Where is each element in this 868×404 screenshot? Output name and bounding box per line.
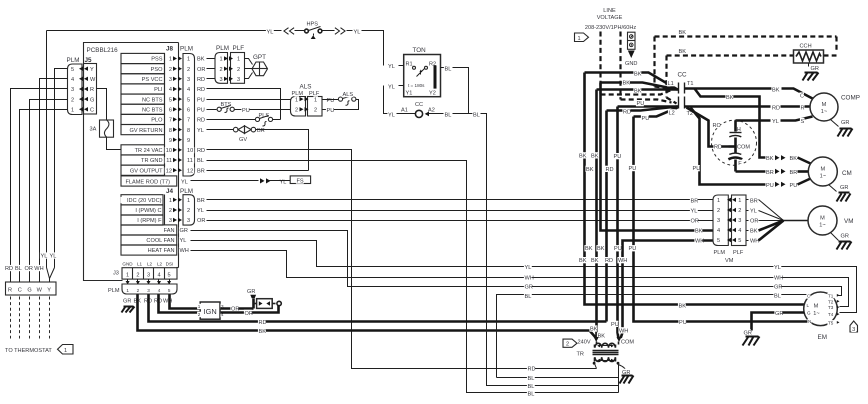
3-pin connector pin 1 xyxy=(219,56,224,62)
svg-text:4: 4 xyxy=(157,272,160,278)
J4 row 1 box IDC (20 VDC) xyxy=(121,195,163,205)
svg-text:VM: VM xyxy=(725,258,734,264)
svg-text:T5: T5 xyxy=(828,320,834,325)
transformer primary lead arrows xyxy=(594,337,599,342)
svg-text:WH: WH xyxy=(163,299,172,305)
svg-text:RC: RC xyxy=(713,123,721,129)
wire GR ground to EM G xyxy=(752,313,805,331)
wire J8-8 YL to GV xyxy=(207,129,234,131)
svg-text:WH: WH xyxy=(618,258,627,264)
svg-text:TR: TR xyxy=(577,352,584,358)
svg-text:BL: BL xyxy=(473,112,480,118)
wire BK L1 axis xyxy=(597,88,679,91)
svg-text:WH: WH xyxy=(774,276,783,282)
svg-text:OR: OR xyxy=(197,67,205,73)
svg-text:8: 8 xyxy=(187,128,190,134)
svg-text:WH: WH xyxy=(695,239,704,245)
svg-text:PLF: PLF xyxy=(233,45,245,52)
svg-text:CC: CC xyxy=(678,72,688,79)
EM tap T1 xyxy=(827,293,834,299)
svg-text:PU: PU xyxy=(327,98,335,104)
svg-text:BR: BR xyxy=(790,170,798,176)
VM wire BR to motor xyxy=(749,197,757,203)
J3 wire colors xyxy=(122,297,130,303)
svg-text:GR: GR xyxy=(123,299,131,305)
svg-text:R: R xyxy=(8,287,12,293)
wire J5-R to thermostat R (RD) xyxy=(11,89,68,283)
J3 pin 5 arrow xyxy=(169,280,171,285)
wire BL to EM C xyxy=(497,295,811,378)
svg-text:BL: BL xyxy=(528,376,535,382)
primary winding arrow xyxy=(600,345,612,347)
svg-text:F: F xyxy=(738,161,742,167)
wire J4-3 OR to VM pin3 xyxy=(207,220,713,222)
J8 pin column separator xyxy=(164,54,166,176)
svg-text:BK: BK xyxy=(623,81,631,87)
svg-text:C: C xyxy=(800,94,804,100)
J5 pin 3 (R) xyxy=(70,86,75,92)
wire PU L2 axis xyxy=(618,105,679,108)
svg-text:YL: YL xyxy=(267,30,274,36)
svg-text:1: 1 xyxy=(71,108,74,114)
J8 row 6 label box NC BTS xyxy=(121,104,165,114)
svg-text:VM: VM xyxy=(844,218,853,225)
svg-text:PSO: PSO xyxy=(151,67,163,73)
svg-text:GR: GR xyxy=(841,120,849,126)
svg-text:1: 1 xyxy=(237,57,240,63)
svg-text:10: 10 xyxy=(166,148,172,154)
svg-text:YL: YL xyxy=(388,113,395,119)
J8 pin 4 arrows xyxy=(168,86,173,92)
svg-text:L2: L2 xyxy=(147,262,153,267)
J4 row 2 box I (PWM) C xyxy=(121,205,163,215)
svg-text:11: 11 xyxy=(187,158,193,164)
J8 wire color RD pin 4 xyxy=(196,86,204,92)
VM connector pin 3 xyxy=(716,217,721,223)
svg-text:WH: WH xyxy=(619,328,628,334)
J4 pin column separator xyxy=(164,195,166,226)
transformer primary coil xyxy=(596,342,598,345)
svg-text:BR: BR xyxy=(750,198,758,204)
svg-text:5: 5 xyxy=(187,97,190,103)
svg-text:RD: RD xyxy=(197,148,205,154)
svg-text:GR: GR xyxy=(525,285,533,291)
ALS PLM housing xyxy=(291,97,306,117)
J8 wire color RD pin 10 xyxy=(196,147,204,153)
svg-text:R1: R1 xyxy=(406,61,413,67)
wire J4-2 YL to VM pin2 xyxy=(207,210,713,212)
VM ground GR xyxy=(831,233,839,241)
svg-text:PU: PU xyxy=(679,320,687,326)
svg-text:t = 180s: t = 180s xyxy=(408,83,425,88)
wire COOL FAN YL to EM T4 xyxy=(191,241,857,313)
svg-text:3: 3 xyxy=(147,288,150,293)
svg-text:PU: PU xyxy=(693,166,701,172)
svg-text:RD: RD xyxy=(197,77,205,83)
svg-text:OR: OR xyxy=(691,218,699,224)
svg-text:COOL FAN: COOL FAN xyxy=(146,238,174,244)
svg-text:2: 2 xyxy=(187,67,190,73)
svg-text:PLM: PLM xyxy=(108,288,120,294)
svg-text:2: 2 xyxy=(169,208,172,214)
wire J3-3 RD to L2 feed xyxy=(149,295,607,322)
J4 row FAN box xyxy=(121,225,177,235)
wire J8-3 to PLM (RD) xyxy=(207,78,215,80)
svg-text:BK: BK xyxy=(634,88,642,94)
svg-text:BL: BL xyxy=(445,112,452,118)
svg-text:2: 2 xyxy=(198,312,201,317)
svg-text:6: 6 xyxy=(169,108,172,114)
svg-text:208-230V/1PH/60Hz: 208-230V/1PH/60Hz xyxy=(585,25,637,31)
svg-text:CC: CC xyxy=(415,102,423,108)
ALS loop wire PU xyxy=(323,100,359,110)
svg-text:BK: BK xyxy=(591,258,599,264)
svg-text:5: 5 xyxy=(71,67,74,73)
TON internals xyxy=(405,60,413,66)
svg-text:G: G xyxy=(90,97,94,103)
ignition control IGN xyxy=(200,302,220,319)
svg-text:BK: BK xyxy=(695,229,703,235)
wire IGN OR to spark electrode xyxy=(221,307,254,310)
crankcase heater CCH xyxy=(799,42,810,48)
HEAT FAN WH label xyxy=(179,247,187,253)
svg-text:BR: BR xyxy=(197,168,205,174)
wire BL CC to transformer xyxy=(472,111,480,117)
BL label row3 xyxy=(527,383,535,389)
svg-text:BL: BL xyxy=(774,294,781,300)
connector J5 PLM housing xyxy=(68,64,83,115)
J3 pin 3 arrow xyxy=(148,280,150,285)
svg-text:8: 8 xyxy=(169,128,172,134)
wire J5-W to thermostat W (WH) xyxy=(40,79,68,283)
EM tap T2 xyxy=(827,299,834,305)
svg-text:YL: YL xyxy=(525,265,532,271)
J8 pin 3 arrows xyxy=(168,76,173,82)
J3 pin 2 arrow xyxy=(137,280,139,285)
wire BL from EM C to secondary xyxy=(497,377,619,379)
FLAME ROD (T7) box xyxy=(121,176,177,186)
J8 row 4 label box PLI xyxy=(121,84,165,94)
wire BK dashed CCH top xyxy=(655,35,837,37)
J8 pin 11 arrows xyxy=(165,157,173,163)
EM tap T3 xyxy=(827,305,834,311)
svg-text:3: 3 xyxy=(220,77,223,83)
svg-text:J8: J8 xyxy=(166,46,174,53)
wire BK L1 feed 2 xyxy=(601,83,678,90)
svg-text:TR 24 VAC: TR 24 VAC xyxy=(135,148,163,154)
J8 row 2 label box PSO xyxy=(121,64,165,74)
contact L1-T1 xyxy=(678,83,680,94)
svg-text:1: 1 xyxy=(198,304,201,309)
svg-text:2: 2 xyxy=(220,67,223,73)
svg-text:PLM: PLM xyxy=(67,57,80,64)
svg-text:5: 5 xyxy=(717,238,720,244)
RC COM terminal xyxy=(736,143,747,149)
wire J8-5 PU to ALS PLM pin1 xyxy=(207,99,291,101)
svg-text:1~: 1~ xyxy=(821,109,828,115)
svg-text:5: 5 xyxy=(169,97,172,103)
J3 pin 2 xyxy=(136,271,141,277)
svg-text:BK: BK xyxy=(750,229,758,235)
3-pin PLF housing xyxy=(231,53,245,84)
J8 row 12 label box GV OUTPUT xyxy=(121,165,165,175)
wire labels RD BL OR WH xyxy=(4,265,12,271)
svg-text:FS: FS xyxy=(297,179,304,185)
svg-text:240V: 240V xyxy=(578,339,591,345)
svg-text:TR GND: TR GND xyxy=(141,158,162,164)
J3 PLM housing xyxy=(122,284,177,294)
svg-text:G: G xyxy=(807,311,811,316)
dashed field wires to thermostat xyxy=(10,297,12,339)
svg-text:BK: BK xyxy=(679,303,687,309)
dashed drop to L1 xyxy=(653,37,655,87)
high pressure switch HPS xyxy=(306,20,317,26)
svg-text:ALS: ALS xyxy=(300,84,312,91)
svg-text:PU: PU xyxy=(197,97,205,103)
svg-text:3: 3 xyxy=(71,87,74,93)
J4 row HEAT FAN box xyxy=(121,245,177,255)
svg-text:1: 1 xyxy=(220,57,223,63)
J4 PLM housing xyxy=(183,195,195,225)
electrode ground tab GR xyxy=(246,288,254,294)
wire fuse to TR 24 VAC xyxy=(107,138,121,150)
svg-text:W: W xyxy=(37,287,43,293)
svg-text:FAN: FAN xyxy=(164,228,175,234)
J5 pin 1 (C) xyxy=(70,106,75,112)
svg-text:BL: BL xyxy=(525,294,532,300)
svg-text:BK: BK xyxy=(634,71,642,77)
svg-text:YL: YL xyxy=(50,254,57,260)
svg-text:HEAT FAN: HEAT FAN xyxy=(148,248,175,254)
J3 PLM pin 4 xyxy=(157,288,161,294)
svg-text:OR: OR xyxy=(197,218,205,224)
transformer secondary coil xyxy=(595,357,615,361)
svg-text:YL: YL xyxy=(197,208,204,214)
svg-text:RD: RD xyxy=(772,105,780,111)
svg-text:T4: T4 xyxy=(828,312,834,317)
svg-text:A1: A1 xyxy=(401,108,408,114)
EM tap T4 xyxy=(827,312,834,318)
terminal G xyxy=(27,286,32,292)
svg-text:COM: COM xyxy=(621,339,634,345)
transformer core xyxy=(593,350,619,352)
wire YL RC H to COMP S xyxy=(736,119,771,122)
svg-text:BK: BK xyxy=(585,246,593,252)
svg-text:J4: J4 xyxy=(166,188,174,195)
gas valve GV xyxy=(233,127,238,132)
EM tap T5 xyxy=(827,320,834,326)
svg-text:TON: TON xyxy=(413,47,427,54)
vent motor VM xyxy=(784,220,809,222)
svg-text:1: 1 xyxy=(577,36,580,42)
svg-text:EM: EM xyxy=(818,334,827,341)
svg-text:PU: PU xyxy=(197,108,205,114)
svg-text:12: 12 xyxy=(187,168,193,174)
wire HEAT FAN WH to EM T3 xyxy=(191,251,849,307)
svg-text:GPT: GPT xyxy=(253,54,266,61)
svg-text:NC BTS: NC BTS xyxy=(142,108,163,114)
svg-text:2: 2 xyxy=(566,341,569,347)
J8 pin 7 arrows xyxy=(168,117,173,123)
svg-text:PU: PU xyxy=(642,116,650,122)
J8 pin 1 arrows xyxy=(168,56,173,62)
svg-text:BL: BL xyxy=(528,392,535,398)
contactor coil CC xyxy=(414,101,422,107)
svg-text:PS VCC: PS VCC xyxy=(142,77,163,83)
svg-text:1~: 1~ xyxy=(819,223,826,229)
3-pin connector pin 2 xyxy=(219,66,224,72)
svg-text:1: 1 xyxy=(169,198,172,204)
svg-text:GR: GR xyxy=(775,311,783,317)
LINE VOLTAGE labels xyxy=(602,7,617,13)
svg-text:PU: PU xyxy=(614,246,622,252)
svg-text:11: 11 xyxy=(166,158,172,164)
terminal Y xyxy=(47,286,52,292)
wire FAN GR to EM T1 xyxy=(191,231,842,296)
timer TON box xyxy=(404,55,441,97)
svg-text:1: 1 xyxy=(738,198,741,204)
flame sensor FS box xyxy=(290,176,310,184)
svg-text:Y: Y xyxy=(47,287,51,293)
wire BTS to ALS PLM pin2 (PU) xyxy=(235,109,291,111)
svg-text:L2: L2 xyxy=(157,262,163,267)
J8 row 1 label box PSS xyxy=(121,53,165,63)
svg-text:YL: YL xyxy=(774,265,781,271)
svg-text:GR: GR xyxy=(841,234,849,240)
wire YL HPS top run xyxy=(47,30,282,32)
svg-text:RD: RD xyxy=(606,167,614,173)
svg-text:Y1: Y1 xyxy=(406,91,413,97)
thermostat terminal strip R C G W Y xyxy=(6,282,57,295)
wire BK to CM xyxy=(765,155,773,161)
svg-text:PSS: PSS xyxy=(151,57,162,63)
svg-text:5: 5 xyxy=(738,238,741,244)
condenser motor CM xyxy=(808,157,837,186)
J8 wire color BK pin 1 xyxy=(196,56,204,62)
svg-text:ALS: ALS xyxy=(343,92,354,98)
svg-text:GV OUTPUT: GV OUTPUT xyxy=(130,168,163,174)
J4 pin 2 arrows xyxy=(168,207,173,213)
svg-text:PU: PU xyxy=(242,108,250,114)
flag 1 (to thermostat) xyxy=(58,345,74,355)
J3 header box xyxy=(122,268,177,279)
svg-text:RD: RD xyxy=(197,118,205,124)
J8 wire color BR pin 12 xyxy=(196,167,204,173)
svg-text:2: 2 xyxy=(71,97,74,103)
svg-text:BL: BL xyxy=(445,66,452,72)
wire BK dashed CCH bottom xyxy=(667,54,794,56)
YL merge onto Y terminal xyxy=(50,268,55,283)
J8 PLM housing xyxy=(183,54,195,177)
VM connector pin 1 xyxy=(716,197,721,203)
GPT igniter symbol xyxy=(252,62,268,76)
bundle labels row1 xyxy=(584,245,592,251)
svg-text:WH: WH xyxy=(180,248,189,254)
svg-text:1: 1 xyxy=(187,198,190,204)
wire labels YL YL xyxy=(40,252,48,258)
svg-text:L: L xyxy=(807,303,810,308)
svg-text:1~: 1~ xyxy=(820,174,827,180)
svg-text:GR: GR xyxy=(811,66,819,72)
svg-text:1: 1 xyxy=(126,272,129,278)
J3 PLM pin 5 xyxy=(167,288,171,294)
svg-text:BK: BK xyxy=(679,49,687,55)
svg-text:2: 2 xyxy=(169,67,172,73)
svg-text:4: 4 xyxy=(187,87,190,93)
svg-text:IGN: IGN xyxy=(204,307,217,316)
svg-text:7: 7 xyxy=(187,118,190,124)
svg-text:CM: CM xyxy=(842,170,852,177)
svg-text:3: 3 xyxy=(717,218,720,224)
svg-text:VOLTAGE: VOLTAGE xyxy=(597,15,623,21)
svg-text:RD: RD xyxy=(259,320,267,326)
J5 pin 5 (Y) xyxy=(70,66,75,72)
svg-text:M: M xyxy=(814,304,819,310)
svg-text:12: 12 xyxy=(166,168,172,174)
wire BK bundle v2 to VM pin4 xyxy=(601,83,713,231)
ground (J3 GR) xyxy=(124,306,134,308)
svg-text:2: 2 xyxy=(187,208,190,214)
svg-text:BK: BK xyxy=(579,153,587,159)
svg-text:YL: YL xyxy=(197,128,204,134)
svg-text:YL: YL xyxy=(180,238,187,244)
svg-text:BK: BK xyxy=(679,30,687,36)
svg-text:GR: GR xyxy=(180,228,188,234)
J4 pin 3 arrows xyxy=(168,217,173,223)
J3 PLM label xyxy=(107,287,118,293)
wire R to fuse xyxy=(97,89,107,121)
VM wire WH to motor xyxy=(749,237,757,243)
J8 row 10 label box TR 24 VAC xyxy=(121,145,165,155)
IGN pin marks xyxy=(197,304,201,310)
ALS switch xyxy=(326,97,334,103)
svg-text:2: 2 xyxy=(136,272,139,278)
svg-text:3: 3 xyxy=(187,77,190,83)
svg-text:W: W xyxy=(90,77,96,83)
wire RD bundle v4 L2 to board xyxy=(605,111,608,322)
svg-text:GR: GR xyxy=(744,330,752,336)
wire PLS to J8-4 vertical xyxy=(273,119,281,121)
wire J8-1 to PLM (BK) xyxy=(207,58,215,60)
svg-text:1: 1 xyxy=(126,288,129,293)
secondary winding arrow xyxy=(600,360,612,362)
wire HPS YL drop to thermostat Y xyxy=(46,31,48,268)
labels near transformer xyxy=(589,325,597,331)
svg-text:2: 2 xyxy=(295,108,298,114)
svg-text:BR: BR xyxy=(197,198,205,204)
J8 row 5 label box NC BTS xyxy=(121,94,165,104)
svg-text:IDC (20 VDC): IDC (20 VDC) xyxy=(127,198,162,204)
J3 pin 1 arrow xyxy=(127,280,129,285)
svg-text:PLM: PLM xyxy=(180,46,193,53)
ALS connector pin 1 xyxy=(294,96,299,102)
svg-text:PU: PU xyxy=(766,183,774,189)
terminal C xyxy=(18,286,23,292)
svg-text:BK: BK xyxy=(259,329,267,335)
wire PU L2 feed 2 xyxy=(634,108,678,117)
wire BR RC F to CM xyxy=(736,170,766,173)
J8 PLM pin 11 xyxy=(186,157,194,163)
svg-text:PU: PU xyxy=(327,108,335,114)
svg-text:OR: OR xyxy=(245,311,253,317)
svg-text:BK: BK xyxy=(591,153,599,159)
wire TR 24 VAC RD to transformer secondary xyxy=(207,150,597,369)
svg-text:PU: PU xyxy=(629,246,637,252)
svg-text:3: 3 xyxy=(852,327,855,333)
3-pin PLM housing xyxy=(215,53,228,84)
svg-text:T1: T1 xyxy=(828,293,834,298)
svg-text:GR: GR xyxy=(774,285,782,291)
